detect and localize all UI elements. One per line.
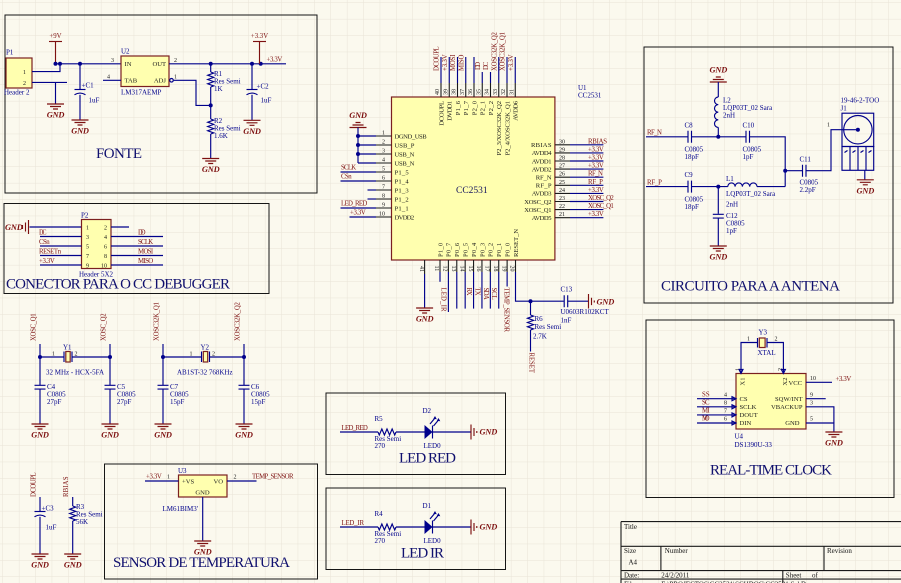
svg-text:R4: R4 <box>375 510 384 518</box>
wire U3 GND down <box>202 497 204 541</box>
svg-text:1uF: 1uF <box>261 97 272 105</box>
net label LED_IR (pin 12) <box>440 288 447 312</box>
svg-text:GND: GND <box>101 431 119 440</box>
wire U1 right pin 28 <box>570 160 603 162</box>
wire U1 bottom pin 14 <box>464 272 466 309</box>
net label XOSC32K_Q2 (pin 33) <box>491 32 498 71</box>
wire Y3 pin2 to U4 X2 <box>767 343 783 374</box>
svg-text:P2_0: P2_0 <box>471 100 478 115</box>
svg-text:+3.3V: +3.3V <box>508 54 515 71</box>
svg-text:DVDD2: DVDD2 <box>395 214 415 221</box>
svg-text:41: 41 <box>418 266 424 272</box>
power +9V <box>49 33 62 64</box>
svg-text:CSn: CSn <box>341 174 352 181</box>
svg-text:31: 31 <box>509 89 515 95</box>
svg-text:P1_4: P1_4 <box>395 178 410 185</box>
wire U1 right pin 26 <box>570 176 603 178</box>
svg-text:DGND_USB: DGND_USB <box>395 133 428 140</box>
wire U1 right pin 30 <box>570 144 603 146</box>
ground under C3 <box>31 554 49 570</box>
svg-text:RESETn: RESETn <box>39 249 62 256</box>
svg-text:SDA: SDA <box>482 288 489 300</box>
svg-text:RF_N: RF_N <box>536 175 552 182</box>
U1 top pins 40-31 <box>435 83 520 155</box>
svg-text:1: 1 <box>747 337 750 343</box>
wire LED_RED to R5 <box>340 431 378 433</box>
svg-text:Y2: Y2 <box>201 344 210 352</box>
svg-text:P1: P1 <box>6 49 14 57</box>
net label +3.3V (pin 31) <box>508 54 515 71</box>
inductor L2 LQP03T_02 2nH <box>715 82 774 137</box>
net label RESET (vertical) <box>528 353 535 374</box>
svg-text:GND: GND <box>480 523 498 532</box>
svg-text:GND: GND <box>47 111 65 120</box>
svg-text:26: 26 <box>559 172 565 178</box>
capacitor C3 1uF <box>35 497 57 554</box>
svg-text:RESET: RESET <box>528 353 535 374</box>
svg-text:XOSC32K_Q1: XOSC32K_Q1 <box>153 302 160 341</box>
svg-text:XOSC32K_Q2: XOSC32K_Q2 <box>234 302 241 341</box>
svg-text:GND: GND <box>195 490 210 497</box>
svg-text:XOSC_Q1: XOSC_Q1 <box>588 203 614 210</box>
svg-text:+3.3V: +3.3V <box>588 211 604 218</box>
svg-text:AVDD5: AVDD5 <box>532 215 552 222</box>
LED D2 <box>423 407 442 450</box>
sensor U3 LM61BIM3 <box>163 467 228 513</box>
wire RF_P to C9 <box>646 186 688 188</box>
svg-text:1: 1 <box>174 75 177 81</box>
ground under U3 <box>194 541 212 557</box>
net label SDA (pin 17) <box>482 288 489 300</box>
wire U1 right pin 29 <box>570 152 603 154</box>
svg-text:MO: MO <box>702 416 710 423</box>
svg-text:2: 2 <box>23 81 26 87</box>
svg-text:+3.3V: +3.3V <box>251 33 268 40</box>
svg-text:DOUT: DOUT <box>740 412 758 419</box>
svg-text:GND: GND <box>785 420 800 427</box>
wire U2 OUT to +3.3V <box>169 62 286 66</box>
svg-text:C9: C9 <box>685 171 694 179</box>
svg-text:SCL: SCL <box>490 288 497 300</box>
section box LED RED <box>326 393 506 475</box>
capacitor C10 1pF <box>743 122 762 162</box>
svg-text:270: 270 <box>375 537 386 545</box>
svg-text:30: 30 <box>559 139 565 145</box>
wire U1 bottom pin 18 <box>498 272 500 309</box>
wire P1 pin2 to GND <box>32 82 67 104</box>
svg-text:RF_P: RF_P <box>536 183 552 190</box>
U1 bottom pins 11-20 and pad 41 <box>418 229 520 274</box>
svg-text:36: 36 <box>468 89 474 95</box>
wire XOSC32K_Q1 leg <box>161 344 165 424</box>
resistor R3 56K <box>70 497 103 554</box>
svg-text:R5: R5 <box>375 415 384 423</box>
svg-text:1: 1 <box>382 131 385 137</box>
wires P2 right pins 4,6,8,10 <box>111 237 163 266</box>
svg-text:+3.3V: +3.3V <box>442 54 449 71</box>
capacitor C12 1pF <box>713 187 745 246</box>
svg-text:38: 38 <box>452 89 458 95</box>
svg-text:AVDD2: AVDD2 <box>532 166 552 173</box>
svg-text:AVDD6: AVDD6 <box>513 100 520 120</box>
wire pin7 stub <box>368 189 377 191</box>
svg-text:RESET_N: RESET_N <box>513 229 520 257</box>
svg-text:GND: GND <box>243 127 261 136</box>
svg-text:+3.3V: +3.3V <box>39 258 55 265</box>
svg-text:2nH: 2nH <box>726 201 738 209</box>
svg-text:1pF: 1pF <box>726 227 737 235</box>
crystal Y3 XTAL <box>747 329 778 358</box>
svg-text:1: 1 <box>827 123 830 129</box>
svg-text:TAB: TAB <box>125 78 138 85</box>
svg-text:VCC: VCC <box>788 380 802 387</box>
svg-text:XOSC_Q1: XOSC_Q1 <box>30 313 37 341</box>
wire C13 to GND <box>568 300 588 302</box>
wire L1 to matching node <box>757 186 785 188</box>
svg-text:23: 23 <box>559 196 565 202</box>
svg-text:DD: DD <box>138 230 146 237</box>
svg-text:SQW/INT: SQW/INT <box>775 396 802 403</box>
wire GND to P2 pin1 <box>30 226 82 228</box>
svg-text:1pF: 1pF <box>743 153 754 161</box>
svg-text:18pF: 18pF <box>685 153 700 161</box>
svg-text:35: 35 <box>476 89 482 95</box>
net label RBIAS (vertical) <box>63 476 70 497</box>
svg-text:U3: U3 <box>178 467 187 475</box>
wire XOSC_Q2 leg <box>108 344 112 424</box>
ground under C12 <box>710 246 728 262</box>
wire +3.3V to U3 pin1 <box>145 480 179 482</box>
svg-text:20: 20 <box>509 266 515 272</box>
wire U1 right pin 27 <box>570 168 603 170</box>
section box SENSOR DE TEMPERATURA <box>105 464 318 579</box>
svg-text:D1: D1 <box>423 502 432 510</box>
svg-text:LM317AEMP: LM317AEMP <box>121 89 162 97</box>
svg-text:25: 25 <box>559 180 565 186</box>
svg-text:1uF: 1uF <box>46 524 57 532</box>
svg-text:2: 2 <box>775 337 778 343</box>
svg-text:14: 14 <box>458 266 464 272</box>
capacitor C11 2.2pF <box>800 156 819 195</box>
svg-text:21: 21 <box>559 212 565 218</box>
title block frame <box>621 522 901 583</box>
title block labels <box>624 523 852 583</box>
svg-text:SS: SS <box>702 392 710 399</box>
svg-text:GND: GND <box>202 165 220 174</box>
svg-text:XOSC32K_Q2: XOSC32K_Q2 <box>491 32 498 71</box>
net label RX (pin 15) <box>465 288 472 296</box>
svg-text:P0_3: P0_3 <box>479 242 486 257</box>
svg-text:3: 3 <box>111 58 114 64</box>
svg-text:15pF: 15pF <box>170 398 185 406</box>
wire U1 bottom pin 16 <box>481 272 483 309</box>
svg-text:1uF: 1uF <box>89 97 100 105</box>
ground at U1 pins 1-4 <box>349 111 367 128</box>
wire pin8 stub <box>368 198 377 200</box>
svg-text:4: 4 <box>104 235 107 241</box>
wire U1 top pin 36 <box>473 57 475 83</box>
svg-text:Y3: Y3 <box>759 329 768 337</box>
wire +9V rail to U2 IN <box>54 62 122 66</box>
svg-text:10: 10 <box>379 212 385 218</box>
svg-text:C10: C10 <box>743 122 755 130</box>
wire U1 top pin 31 <box>514 57 516 83</box>
wire P2 pin2 stub <box>111 226 129 228</box>
svg-text:XTAL: XTAL <box>758 349 776 357</box>
svg-text:18pF: 18pF <box>685 203 700 211</box>
ground under R2 <box>202 159 220 175</box>
net label MISO (pin 37) <box>458 55 465 71</box>
svg-text:29: 29 <box>559 147 565 153</box>
svg-text:P1_5: P1_5 <box>395 169 410 176</box>
svg-text:Res Semi: Res Semi <box>535 323 562 331</box>
svg-text:LED_IR: LED_IR <box>342 520 365 527</box>
U2 ADJ bubble and wire to R1/R2 junction <box>170 79 211 106</box>
ground under C5 <box>101 424 119 440</box>
svg-text:Header 2: Header 2 <box>4 89 30 97</box>
wire U1 bottom pin 12 <box>447 272 449 312</box>
wire LED_IR to R4 <box>340 526 378 528</box>
header P2 5X2 <box>79 212 114 279</box>
svg-text:12: 12 <box>442 266 448 272</box>
wire U1 top pin 38 <box>457 57 459 83</box>
svg-text:28: 28 <box>559 156 565 162</box>
resistor R6 2.7K <box>528 301 562 351</box>
svg-text:GND: GND <box>710 253 728 262</box>
svg-text:+C3: +C3 <box>42 505 55 513</box>
svg-text:19-46-2-TOO: 19-46-2-TOO <box>841 97 880 105</box>
svg-text:1.6K: 1.6K <box>214 132 228 140</box>
svg-text:MISO: MISO <box>138 258 153 265</box>
svg-text:DCOUPL: DCOUPL <box>30 472 37 497</box>
svg-text:GND: GND <box>597 298 615 307</box>
svg-text:15: 15 <box>467 266 473 272</box>
svg-text:+9V: +9V <box>49 33 61 40</box>
svg-text:FONTE: FONTE <box>96 146 142 162</box>
capacitor C9 18pF <box>685 171 704 211</box>
svg-text:P0_6: P0_6 <box>454 242 461 257</box>
svg-text:GND: GND <box>154 431 172 440</box>
svg-text:SC: SC <box>702 400 710 407</box>
svg-text:24/2/2011: 24/2/2011 <box>661 572 690 580</box>
wire MO to U4 DIN pin6 <box>697 422 736 424</box>
svg-text:18: 18 <box>492 266 498 272</box>
wire U1 right pin 22 <box>570 209 603 211</box>
ground under U4 <box>825 432 843 448</box>
wire D2 to GND <box>433 431 471 433</box>
svg-text:SCLK: SCLK <box>341 165 356 172</box>
svg-text:P1_2: P1_2 <box>395 196 409 203</box>
svg-text:+3.3V: +3.3V <box>588 155 604 162</box>
svg-text:XOSC_Q1: XOSC_Q1 <box>524 207 551 214</box>
wire U1 right pin 25 <box>570 184 603 186</box>
svg-text:17: 17 <box>484 266 490 272</box>
svg-text:P0_2: P0_2 <box>488 243 495 257</box>
svg-text:DC: DC <box>483 61 490 70</box>
svg-text:2: 2 <box>382 140 385 146</box>
svg-text:27: 27 <box>559 164 565 170</box>
svg-text:GND: GND <box>31 431 49 440</box>
svg-text:RF_N: RF_N <box>647 129 662 136</box>
wire R4 to D1 <box>396 526 425 528</box>
ground under C1 <box>71 120 89 136</box>
svg-text:+C2: +C2 <box>257 83 270 91</box>
svg-text:TEMP_SENSOR: TEMP_SENSOR <box>503 288 510 333</box>
svg-text:RF_N: RF_N <box>588 171 603 178</box>
svg-text:GND: GND <box>235 431 253 440</box>
antenna connector J1 19-46-2-TOO <box>841 97 880 171</box>
LED D1 <box>423 502 442 545</box>
inductor L1 LQP03T_02 2nH <box>726 175 776 209</box>
node R1/R2/ADJ <box>209 103 213 107</box>
wire U1 right pin 21 <box>570 217 603 219</box>
svg-text:LED_RED: LED_RED <box>342 425 368 432</box>
svg-text:P1_0: P1_0 <box>437 242 444 257</box>
svg-text:CS: CS <box>740 396 748 403</box>
svg-text:LED RED: LED RED <box>399 451 456 467</box>
svg-text:2: 2 <box>212 352 215 358</box>
net label SCL (pin 18) <box>490 288 497 300</box>
svg-text:2: 2 <box>174 58 177 64</box>
wire U1 pad 41 to GND <box>424 274 426 308</box>
section box FONTE <box>5 15 317 193</box>
svg-text:27pF: 27pF <box>47 398 62 406</box>
svg-text:DS1390U-33: DS1390U-33 <box>735 441 773 449</box>
resistor R4 270 <box>375 510 402 545</box>
svg-text:Number: Number <box>665 547 689 555</box>
svg-text:P1_3: P1_3 <box>395 187 410 194</box>
svg-text:MI: MI <box>702 408 710 415</box>
svg-text:+3.3V: +3.3V <box>146 474 162 481</box>
capacitor C7 15pF <box>158 383 190 406</box>
wire U4 VCC pin10 <box>806 381 832 383</box>
svg-text:2.7K: 2.7K <box>533 333 547 341</box>
svg-text:4: 4 <box>382 158 385 164</box>
svg-text:DCOUPL: DCOUPL <box>438 101 445 126</box>
svg-text:+3.3V: +3.3V <box>350 210 366 217</box>
svg-text:SENSOR DE TEMPERATURA: SENSOR DE TEMPERATURA <box>113 555 290 571</box>
svg-text:Date:: Date: <box>624 572 639 580</box>
ground (sideways) at P2 pin1 <box>5 220 29 234</box>
svg-text:+C1: +C1 <box>82 82 95 90</box>
wire U1 top pin 37 <box>465 57 467 83</box>
net label XOSC32K_Q2 (vertical) <box>234 302 241 341</box>
net label XOSC_Q1 (vertical) <box>30 313 37 341</box>
wire C11 to J1 pin 1 <box>806 130 842 171</box>
svg-text:C13: C13 <box>561 286 573 294</box>
connector P1 <box>4 49 32 97</box>
net label DCOUPL (vertical) <box>30 472 37 497</box>
svg-text:C11: C11 <box>800 156 812 164</box>
ground (sideways) LED IR <box>471 520 497 535</box>
svg-text:USB_N: USB_N <box>395 151 415 158</box>
svg-text:AB1ST-32 768KHz: AB1ST-32 768KHz <box>177 369 233 377</box>
resistor R2 1.6K <box>208 105 241 158</box>
svg-text:3: 3 <box>810 401 813 407</box>
svg-text:3: 3 <box>382 149 385 155</box>
svg-text:LED_RED: LED_RED <box>341 201 367 208</box>
wire U1 top pin 35 <box>481 72 483 83</box>
svg-text:GND: GND <box>31 561 49 570</box>
crystal Y2 32.768KHz <box>163 344 244 377</box>
svg-text:37: 37 <box>460 89 466 95</box>
wire SC to U4 SCLK pin8 <box>697 406 736 408</box>
svg-text:2.2pF: 2.2pF <box>800 186 816 194</box>
svg-text:3: 3 <box>86 235 89 241</box>
wire U1 right pin 23 <box>570 201 603 203</box>
svg-text:24: 24 <box>559 188 565 194</box>
svg-text:Size: Size <box>624 547 636 555</box>
svg-text:RBIAS: RBIAS <box>63 476 70 497</box>
svg-text:2: 2 <box>104 225 107 231</box>
svg-text:OUT: OUT <box>152 61 166 68</box>
wire U1 top pin 34 <box>490 72 492 83</box>
svg-text:J1: J1 <box>841 105 848 113</box>
svg-text:Title: Title <box>624 523 637 531</box>
svg-text:D2: D2 <box>423 407 432 415</box>
svg-text:VO: VO <box>213 479 223 486</box>
svg-text:8: 8 <box>382 194 385 200</box>
svg-text:DIN: DIN <box>740 420 752 427</box>
section box CONECTOR PARA O CC DEBUGGER <box>4 204 269 294</box>
svg-text:RX: RX <box>465 288 472 296</box>
svg-text:GND: GND <box>857 186 875 195</box>
svg-text:19: 19 <box>500 266 506 272</box>
svg-text:VBACKUP: VBACKUP <box>771 404 803 411</box>
svg-text:6: 6 <box>104 244 107 250</box>
svg-text:5: 5 <box>382 167 385 173</box>
svg-text:ADJ: ADJ <box>154 78 167 85</box>
svg-text:XOSC_Q2: XOSC_Q2 <box>100 313 107 341</box>
svg-text:GND: GND <box>825 439 843 448</box>
svg-text:56K: 56K <box>76 518 88 526</box>
wire U2 TAB stub <box>103 79 121 81</box>
svg-text:9: 9 <box>382 203 385 209</box>
rtc U4 DS1390U-33 <box>735 368 807 449</box>
svg-text:2: 2 <box>234 475 237 481</box>
wire D1 to GND <box>433 526 471 528</box>
svg-text:AVDD1: AVDD1 <box>532 158 552 165</box>
svg-text:MOSI: MOSI <box>450 54 457 71</box>
svg-text:P1_1: P1_1 <box>395 205 409 212</box>
section box REAL-TIME CLOCK <box>646 320 894 498</box>
svg-text:CC2531: CC2531 <box>456 186 488 196</box>
wire +3.3V to pin10 <box>350 216 377 218</box>
svg-text:XOSC32K_Q1: XOSC32K_Q1 <box>500 32 507 71</box>
net label TEMP_SENSOR (pin 19) <box>503 288 510 333</box>
svg-text:P0_5: P0_5 <box>462 242 469 257</box>
svg-text:P0_4: P0_4 <box>471 242 478 257</box>
svg-text:RBIAS: RBIAS <box>531 142 552 149</box>
svg-text:5: 5 <box>86 244 89 250</box>
wire U1 bottom pin 19 <box>506 272 508 287</box>
net label XOSC32K_Q1 (pin 32) <box>500 32 507 71</box>
capacitor C1 1uF <box>75 64 100 120</box>
svg-text:2nH: 2nH <box>723 112 735 120</box>
capacitor C2 1uF <box>247 64 272 121</box>
svg-text:DVDD1: DVDD1 <box>447 101 454 121</box>
svg-text:39: 39 <box>443 89 449 95</box>
svg-text:TEMP_SENSOR: TEMP_SENSOR <box>252 474 294 481</box>
U1 right pins 30-21 <box>524 139 570 222</box>
wire MI to U4 DOUT pin7 <box>697 414 736 416</box>
svg-text:TX: TX <box>473 288 480 296</box>
svg-text:27pF: 27pF <box>117 398 132 406</box>
svg-text:SCLK: SCLK <box>740 404 757 411</box>
wire U4 GND pin5 <box>806 423 834 432</box>
ground under C2 <box>243 120 261 136</box>
svg-text:RBIAS: RBIAS <box>588 138 607 145</box>
